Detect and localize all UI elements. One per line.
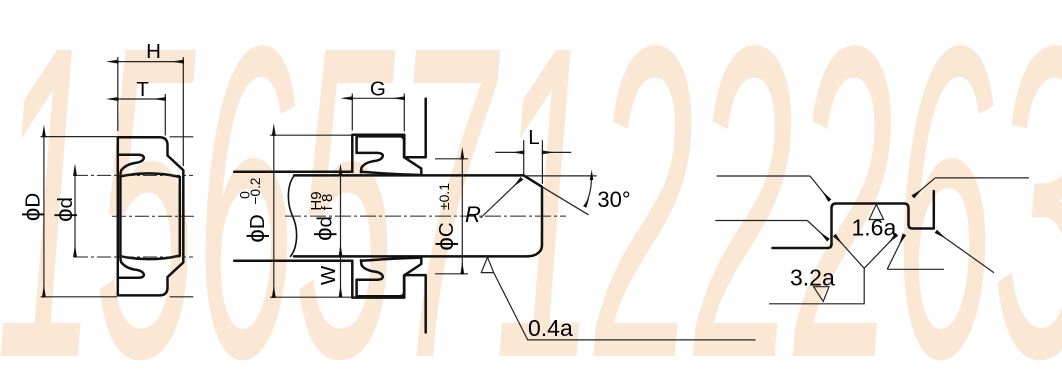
svg-text:30°: 30° (597, 187, 630, 212)
shaft bottom edge (294, 255, 527, 258)
housing bore top line (234, 99, 542, 333)
svg-text:ϕD: ϕD (19, 193, 46, 221)
svg-text:f 8: f 8 (319, 194, 336, 211)
left view outer profile top half (118, 137, 184, 216)
svg-text:ϕD: ϕD (243, 214, 270, 242)
housing bore bottom line (234, 259, 352, 262)
svg-text:−0.2: −0.2 (248, 178, 263, 205)
svg-text:ϕd: ϕd (311, 216, 338, 241)
housing groove top (352, 99, 425, 172)
seal section top (installed) (357, 136, 422, 175)
detail leader D (step) (887, 235, 944, 269)
svg-text:H: H (146, 40, 161, 63)
left view phi-d reference line bottom (74, 256, 193, 258)
svg-text:W: W (317, 265, 340, 285)
svg-text:G: G (370, 78, 386, 101)
svg-text:ϕC: ϕC (432, 222, 459, 250)
left view center line (112, 215, 194, 217)
detail leader F (top-right corner) (913, 178, 1029, 197)
detail leader B (left wall) (715, 221, 828, 240)
rod end chamfer and face (524, 175, 542, 256)
detail bore surface (773, 244, 832, 248)
svg-text:±0.1: ±0.1 (436, 183, 452, 210)
svg-text:ϕd: ϕd (51, 197, 78, 222)
svg-text:0.4a: 0.4a (528, 315, 573, 341)
0.4a surface finish callout (481, 257, 755, 340)
shaft top edge (294, 174, 524, 177)
dimension phi C +-0.1 (435, 159, 468, 274)
left view outer profile bottom half (mirror) (118, 216, 184, 295)
housing groove bottom (352, 261, 425, 333)
dimension G (352, 94, 404, 132)
left view phi-d reference line top (74, 174, 193, 176)
middle view center line (285, 215, 566, 217)
dimension phi D (left view) (41, 137, 194, 297)
dimension L (495, 140, 571, 184)
svg-text:R: R (465, 202, 481, 227)
detail groove profile (832, 191, 934, 244)
svg-text:1.6a: 1.6a (852, 215, 897, 241)
left view bore side edges (119, 176, 122, 256)
detail leader V with 3.2a tail (769, 235, 896, 304)
dimension phi D -0.2/0 (middle) (270, 135, 352, 297)
detail leader E (face corner) (936, 232, 994, 273)
left view lip notch top (118, 155, 144, 176)
dimension T (118, 94, 166, 136)
svg-text:T: T (136, 78, 149, 101)
30 degree chamfer callout (524, 176, 597, 215)
detail leader A (top-left corner) (717, 176, 830, 200)
seal section bottom (installed, mirror) (357, 258, 422, 297)
dimension H (118, 57, 184, 166)
R radius callout (481, 179, 522, 218)
svg-text:L: L (528, 126, 539, 149)
dimension phi d (left view) (74, 175, 76, 256)
dimension W (340, 256, 342, 297)
dimension phi d H9/f8 (340, 175, 342, 256)
left view bore top arc (120, 173, 179, 177)
shaft break curve (288, 175, 296, 256)
